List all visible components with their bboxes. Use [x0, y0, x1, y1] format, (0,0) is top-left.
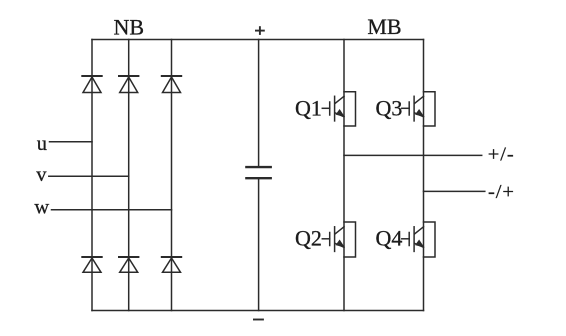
wire inverter leg A (Q1/Q2) — [343, 40, 345, 311]
svg-text:+/-: +/- — [488, 144, 515, 166]
wire rectifier leg 2 (phase v) — [128, 40, 130, 311]
diode D3 (top row, leg 3) — [162, 76, 181, 93]
svg-text:u: u — [37, 133, 47, 155]
wire phase input u — [50, 141, 93, 143]
transistor Q3 (IGBT, leg B top) — [402, 92, 435, 126]
wire DC-link capacitor branch bottom — [258, 178, 260, 310]
transistor Q2 (IGBT, leg A bottom) — [322, 222, 355, 257]
svg-text:Q1: Q1 — [295, 95, 322, 120]
wire top DC rail (+) — [92, 39, 424, 41]
wire phase input v — [49, 175, 129, 177]
wire phase input w — [52, 209, 172, 211]
wire bottom DC rail (-) — [92, 310, 424, 312]
svg-text:Q2: Q2 — [295, 225, 322, 250]
svg-text:-/+: -/+ — [488, 181, 515, 203]
transistor Q1 (IGBT, leg A top) — [322, 92, 355, 126]
node - (DC link minus) — [253, 319, 264, 321]
svg-text:v: v — [36, 164, 47, 186]
wire rectifier leg 3 (phase w) — [171, 40, 173, 311]
diode D5 (bottom row, leg 2) — [119, 257, 138, 272]
svg-text:w: w — [34, 197, 49, 219]
diode D6 (bottom row, leg 3) — [162, 257, 181, 272]
wire rectifier leg 1 (phase u) — [91, 40, 93, 311]
diode D2 (top row, leg 2) — [119, 76, 138, 93]
svg-text:NB: NB — [114, 14, 145, 39]
svg-text:Q3: Q3 — [376, 95, 403, 120]
node + (DC link plus) — [255, 26, 265, 35]
wire output -/+ from leg B midpoint — [424, 190, 485, 192]
wire output +/- from leg A midpoint — [344, 154, 482, 156]
transistor Q4 (IGBT, leg B bottom) — [402, 222, 435, 257]
svg-text:MB: MB — [367, 14, 401, 39]
wire DC-link capacitor branch top — [258, 40, 260, 168]
svg-text:Q4: Q4 — [376, 225, 403, 250]
wire inverter leg B (Q3/Q4) — [423, 40, 425, 311]
capacitor C1 (DC link) — [246, 167, 270, 178]
diode D1 (top row, leg 1) — [82, 76, 101, 93]
diode D4 (bottom row, leg 1) — [82, 257, 101, 272]
